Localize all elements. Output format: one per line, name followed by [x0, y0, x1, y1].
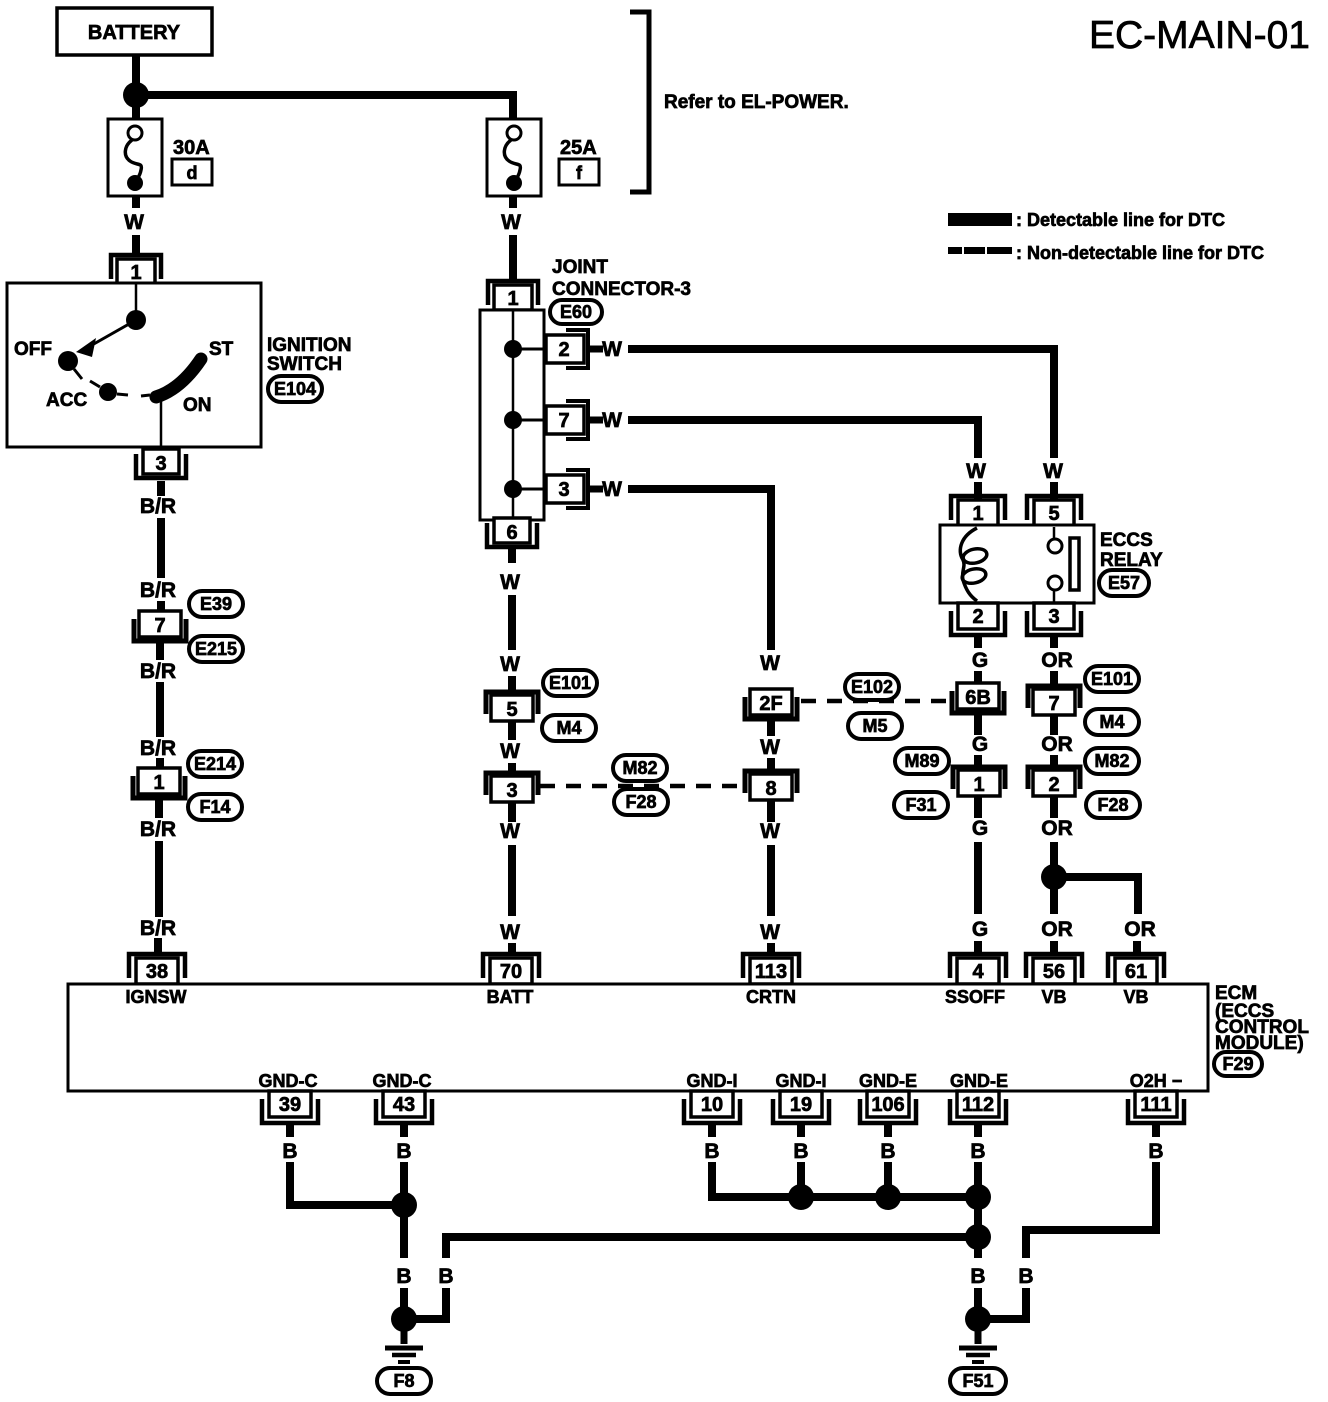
wire [156, 643, 164, 660]
svg-text:70: 70 [500, 961, 522, 983]
svg-text:W: W [602, 478, 622, 501]
wire joint pin 3 to CRTN chain [628, 489, 771, 650]
connector 6B E102/M5 [952, 691, 1004, 713]
wire [1050, 482, 1058, 500]
svg-text:43: 43 [393, 1094, 415, 1116]
wire [974, 671, 982, 683]
svg-text:W: W [602, 338, 622, 361]
connector code E101 [543, 670, 597, 696]
svg-text:ON: ON [183, 395, 212, 416]
svg-text:W: W [501, 211, 521, 234]
wire [974, 796, 982, 818]
svg-text:W: W [602, 409, 622, 432]
svg-text:B: B [880, 1140, 895, 1163]
svg-text:3: 3 [1048, 606, 1059, 628]
svg-text:VB: VB [1041, 987, 1066, 1007]
ECM pin 70 BATT [483, 954, 539, 978]
wire pin 111 to ground [1026, 1162, 1156, 1258]
connector code M89 [895, 748, 949, 774]
svg-text:SSOFF: SSOFF [945, 987, 1005, 1007]
svg-text:B/R: B/R [140, 579, 176, 602]
ECM pin 113 CRTN [743, 954, 799, 978]
connector 7 E101/M4 [1028, 686, 1080, 708]
svg-text:39: 39 [279, 1094, 301, 1116]
svg-text:O2H −: O2H − [1130, 1071, 1183, 1091]
svg-text:d: d [187, 163, 198, 183]
wire [508, 943, 516, 953]
joint connector pin 2 [513, 348, 546, 351]
wire [508, 549, 516, 563]
wire [767, 800, 775, 822]
fuse f 25A [487, 119, 541, 196]
wire [974, 941, 982, 953]
svg-text:2: 2 [558, 339, 569, 361]
wire joint pin 2 to ECCS relay pin 5 [628, 349, 1054, 458]
svg-text:B: B [793, 1140, 808, 1163]
svg-text:: Non-detectable line for DTC: : Non-detectable line for DTC [1016, 243, 1264, 263]
svg-text:19: 19 [790, 1094, 812, 1116]
ECCS relay pin 1 [951, 496, 1005, 520]
svg-text:Refer to EL-POWER.: Refer to EL-POWER. [664, 92, 849, 113]
svg-text:OR: OR [1124, 918, 1156, 941]
svg-text:GND-I: GND-I [776, 1071, 827, 1091]
wire [974, 715, 982, 735]
ECCS relay contacts [1048, 527, 1079, 602]
connector 1 E214/F14 [133, 776, 185, 798]
svg-text:M82: M82 [622, 758, 657, 778]
wire [990, 1288, 1026, 1319]
svg-text:61: 61 [1125, 961, 1147, 983]
svg-text:10: 10 [701, 1094, 723, 1116]
svg-text:M5: M5 [862, 716, 887, 736]
wire [1050, 842, 1058, 866]
svg-text:CRTN: CRTN [746, 987, 796, 1007]
junction node GND-E [875, 1184, 901, 1210]
wire [132, 235, 140, 255]
svg-text:GND-C: GND-C [259, 1071, 318, 1091]
svg-text:W: W [124, 211, 144, 234]
svg-text:B: B [970, 1140, 985, 1163]
wire [974, 635, 982, 648]
wire junction to fuse f [136, 95, 513, 119]
svg-text:W: W [500, 571, 520, 594]
battery [57, 8, 212, 55]
svg-text:B: B [438, 1265, 453, 1288]
svg-text:1: 1 [153, 772, 164, 794]
svg-text:E101: E101 [1091, 669, 1133, 689]
joint connector pin 7 [513, 419, 546, 422]
ECM pin 10 [691, 1091, 733, 1117]
svg-text:W: W [760, 820, 780, 843]
wire [1050, 635, 1058, 648]
wire [508, 845, 516, 916]
joint connector-3 body [480, 310, 544, 520]
svg-text:W: W [500, 820, 520, 843]
ECM pin 56 VB [1026, 954, 1082, 978]
wire [884, 1162, 892, 1197]
wire [884, 1123, 892, 1137]
ECM pin 61 VB [1108, 954, 1164, 978]
svg-text:2: 2 [1048, 774, 1059, 796]
wire [1050, 796, 1058, 818]
svg-text:B: B [282, 1140, 297, 1163]
wire [1050, 715, 1058, 735]
svg-text:B: B [1018, 1265, 1033, 1288]
svg-text:B/R: B/R [140, 737, 176, 760]
wire [1050, 941, 1058, 953]
wire [767, 721, 775, 736]
svg-text:B: B [396, 1265, 411, 1288]
svg-text:VB: VB [1123, 987, 1148, 1007]
svg-text:3: 3 [506, 780, 517, 802]
dashed line M82/F28 to connector 8 [540, 784, 742, 789]
wire [508, 721, 516, 740]
connector code M82 [613, 755, 667, 781]
svg-text:ACC: ACC [46, 390, 87, 411]
connector code E215 [189, 636, 243, 662]
wire fuse d to connector 1 [132, 196, 140, 208]
svg-text:7: 7 [154, 615, 165, 637]
connector 1 M89/F31 [953, 767, 1005, 789]
svg-text:1: 1 [130, 262, 141, 284]
svg-text:EC-MAIN-01: EC-MAIN-01 [1089, 14, 1310, 57]
svg-text:B: B [970, 1265, 985, 1288]
wire [767, 943, 775, 953]
svg-text:38: 38 [146, 961, 168, 983]
svg-text:E102: E102 [851, 677, 893, 697]
legend detectable line swatch [948, 213, 1012, 226]
wire [286, 1123, 294, 1137]
svg-text:W: W [966, 460, 986, 483]
svg-text:4: 4 [972, 961, 984, 983]
connector code E39 [189, 591, 243, 617]
svg-text:G: G [972, 649, 988, 672]
wire [767, 758, 775, 771]
wire [508, 802, 516, 822]
wire [400, 1162, 408, 1258]
junction node GND-C [391, 1192, 417, 1218]
svg-text:G: G [972, 918, 988, 941]
svg-text:1: 1 [973, 774, 984, 796]
wire [400, 1288, 408, 1308]
connector code E101 [1085, 666, 1139, 692]
wire [974, 842, 982, 914]
wire [1050, 755, 1058, 767]
svg-text:W: W [500, 921, 520, 944]
svg-text:BATT: BATT [487, 987, 534, 1007]
ignition switch box [7, 283, 261, 447]
wire fuse f to joint connector [509, 196, 517, 208]
svg-text:F14: F14 [199, 797, 230, 817]
svg-text:JOINT: JOINT [552, 257, 608, 278]
ECM pin 112 [957, 1091, 999, 1117]
wire pin 39 to junction [290, 1162, 404, 1205]
ECM pin 38 IGNSW [129, 954, 185, 978]
wire [157, 518, 165, 578]
junction node ground bus [965, 1224, 991, 1250]
svg-text:F28: F28 [625, 792, 656, 812]
connector 3 M82/F28 [486, 773, 538, 795]
wire VB branch [1054, 877, 1138, 914]
connector code F14 [188, 794, 242, 820]
connector 8 M82/F28 [745, 771, 797, 793]
junction node battery feed [123, 82, 149, 108]
wire [974, 1162, 982, 1258]
wire [155, 841, 163, 917]
wire [797, 1123, 805, 1137]
svg-text:111: 111 [1140, 1094, 1171, 1116]
connector code M82 [1085, 748, 1139, 774]
wire [1152, 1123, 1160, 1137]
ECM pin 111 [1135, 1091, 1177, 1117]
svg-text:M4: M4 [556, 718, 581, 738]
junction node VB [1041, 864, 1067, 890]
wire [974, 1123, 982, 1137]
connector code F28 [1086, 792, 1140, 818]
svg-text:W: W [760, 921, 780, 944]
wire [508, 763, 516, 773]
wire [442, 1237, 450, 1258]
legend non-detectable line swatch [948, 247, 1012, 254]
svg-text:GND-C: GND-C [373, 1071, 432, 1091]
connector code E102 [845, 674, 899, 700]
ECM pin 4 SSOFF [950, 954, 1006, 978]
svg-text:F51: F51 [962, 1371, 993, 1391]
svg-text:2: 2 [972, 606, 983, 628]
svg-text:B: B [1148, 1140, 1163, 1163]
svg-text:W: W [1043, 460, 1063, 483]
svg-text:CONNECTOR-3: CONNECTOR-3 [552, 279, 691, 300]
wire junction to fuse d [132, 95, 140, 119]
svg-text:B: B [396, 1140, 411, 1163]
wire joint pin 7 to ECCS relay pin 1 [628, 420, 978, 458]
svg-text:SWITCH: SWITCH [267, 354, 342, 375]
wire [509, 235, 517, 283]
svg-text:OR: OR [1041, 817, 1073, 840]
svg-text:F8: F8 [393, 1371, 414, 1391]
svg-text:112: 112 [962, 1094, 994, 1116]
svg-text:2F: 2F [759, 693, 782, 715]
wire pin 10 to junction [712, 1162, 978, 1197]
connector code F8 [377, 1368, 431, 1394]
ECM pin 43 [383, 1091, 425, 1117]
svg-text:8: 8 [765, 778, 776, 800]
svg-text:7: 7 [1048, 693, 1059, 715]
svg-text:6: 6 [506, 522, 517, 544]
wire [157, 481, 165, 496]
connector code F29 [1214, 1052, 1262, 1076]
connector 1 joint connector [488, 281, 538, 305]
ECM pin 19 [780, 1091, 822, 1117]
svg-text:E57: E57 [1108, 573, 1140, 593]
svg-text:56: 56 [1043, 961, 1065, 983]
ground F8 [391, 1306, 417, 1332]
connector code M4 [1085, 709, 1139, 735]
svg-text:IGNSW: IGNSW [126, 987, 187, 1007]
wire [508, 676, 516, 692]
fuse d 30A [108, 119, 162, 196]
connector 2 M82/F28 [1028, 767, 1080, 789]
svg-text:G: G [972, 733, 988, 756]
svg-text:B/R: B/R [140, 917, 176, 940]
wire [974, 1288, 982, 1308]
ECCS relay box [940, 525, 1094, 603]
ECM pin 106 [867, 1091, 909, 1117]
connector 5 E101/M4 [486, 692, 538, 714]
svg-text:B/R: B/R [140, 495, 176, 518]
svg-text:GND-E: GND-E [950, 1071, 1008, 1091]
wire battery to junction [132, 55, 140, 95]
svg-text:B: B [704, 1140, 719, 1163]
ECCS relay pin 3 [1034, 603, 1074, 629]
svg-text:106: 106 [871, 1094, 904, 1116]
svg-text:E60: E60 [560, 302, 592, 322]
bracket refer to EL-POWER [630, 12, 649, 192]
wire [767, 845, 775, 916]
svg-text:W: W [760, 652, 780, 675]
connector code E214 [188, 751, 242, 777]
svg-text:G: G [972, 817, 988, 840]
wire [974, 755, 982, 767]
wire [156, 758, 164, 770]
svg-text:OFF: OFF [14, 339, 52, 360]
wire ground stub to cross link [416, 1288, 446, 1319]
wire [974, 482, 982, 500]
svg-text:3: 3 [155, 453, 166, 475]
svg-text:F28: F28 [1097, 795, 1128, 815]
ECCS relay pin 2 [958, 603, 998, 629]
svg-text:E214: E214 [194, 754, 236, 774]
svg-text:F29: F29 [1222, 1054, 1253, 1074]
connector code E60 [550, 300, 602, 324]
ignition switch internals [58, 283, 201, 447]
svg-text:W: W [500, 740, 520, 763]
svg-text:: Detectable line for DTC: : Detectable line for DTC [1016, 210, 1225, 230]
svg-text:E101: E101 [549, 673, 591, 693]
svg-text:BATTERY: BATTERY [88, 22, 181, 44]
wire [708, 1123, 716, 1137]
connector code F51 [950, 1368, 1006, 1394]
svg-text:ECCS: ECCS [1100, 530, 1153, 551]
ECM pin 39 [269, 1091, 311, 1117]
wire [1133, 941, 1141, 953]
wire cross link [442, 1233, 978, 1241]
wire [154, 938, 162, 953]
wire [797, 1162, 805, 1197]
connector code F31 [894, 792, 948, 818]
connector code E104 [268, 376, 322, 402]
connector code M4 [542, 715, 596, 741]
junction node GND-E 112 [965, 1184, 991, 1210]
svg-text:IGNITION: IGNITION [267, 335, 351, 356]
wire [157, 601, 165, 612]
svg-text:25A: 25A [560, 137, 597, 159]
connector 6 joint connector [487, 523, 537, 547]
connector 7 E39/E215 [134, 619, 186, 641]
svg-text:OR: OR [1041, 918, 1073, 941]
svg-text:B/R: B/R [140, 660, 176, 683]
svg-text:f: f [576, 163, 583, 183]
connector 2F E102/M5 [745, 697, 797, 719]
svg-text:F31: F31 [905, 795, 936, 815]
ECM box [68, 984, 1208, 1091]
svg-text:B/R: B/R [140, 818, 176, 841]
svg-text:113: 113 [755, 961, 787, 983]
svg-text:OR: OR [1041, 649, 1073, 672]
svg-text:M89: M89 [904, 751, 939, 771]
wire [400, 1123, 408, 1137]
svg-text:5: 5 [506, 699, 517, 721]
ECCS relay pin 5 [1027, 496, 1081, 520]
ground F51 [965, 1306, 991, 1332]
wire [1050, 671, 1058, 686]
svg-text:1: 1 [972, 503, 983, 525]
wire [1050, 888, 1058, 914]
joint connector pin 3 [513, 488, 546, 491]
dashed line 2F to 6B [801, 699, 949, 704]
svg-text:E104: E104 [274, 379, 316, 399]
svg-text:ST: ST [209, 339, 234, 360]
svg-text:30A: 30A [173, 137, 210, 159]
wire [155, 800, 163, 818]
svg-text:6B: 6B [965, 687, 991, 709]
svg-text:GND-E: GND-E [859, 1071, 917, 1091]
svg-text:E215: E215 [195, 639, 237, 659]
wire [508, 595, 516, 650]
connector 1 ignition switch [111, 255, 161, 279]
connector 3 ignition switch [136, 454, 186, 478]
svg-text:W: W [500, 653, 520, 676]
svg-text:OR: OR [1041, 733, 1073, 756]
junction node GND-I [788, 1184, 814, 1210]
svg-text:RELAY: RELAY [1100, 550, 1163, 571]
svg-text:M4: M4 [1099, 712, 1124, 732]
ECCS relay coil [960, 528, 988, 601]
svg-text:M82: M82 [1094, 751, 1129, 771]
svg-text:5: 5 [1048, 503, 1059, 525]
svg-text:1: 1 [507, 288, 518, 310]
svg-text:GND-I: GND-I [687, 1071, 738, 1091]
connector code M5 [848, 713, 902, 739]
connector code E57 [1099, 570, 1149, 596]
svg-text:7: 7 [558, 410, 569, 432]
svg-text:W: W [760, 736, 780, 759]
wire [156, 682, 164, 737]
svg-text:E39: E39 [200, 594, 232, 614]
connector code F28 [614, 789, 668, 815]
svg-text:3: 3 [558, 479, 569, 501]
